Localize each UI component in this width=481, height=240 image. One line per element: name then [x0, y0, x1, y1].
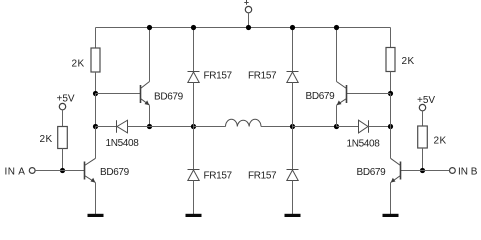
ground (Q4 emitter): [383, 214, 399, 217]
wire: rail to R1 top: [95, 28, 97, 49]
wire: D6 cathode to right mid node: [369, 126, 391, 128]
svg-text:FR157: FR157: [248, 71, 277, 82]
input terminal IN A circle: [29, 168, 35, 174]
wire: left mid node down to Q3 collector: [95, 127, 97, 159]
ground (left diode column): [186, 214, 202, 217]
wire: rail to R2 top: [390, 28, 392, 48]
svg-text:BD679: BD679: [154, 91, 184, 102]
resistor R3 2K body (left bias): [58, 127, 68, 149]
wire: Q2 base node down to right mid node: [390, 94, 392, 127]
supply terminal V+ circle: [245, 6, 251, 12]
wire: D1 anode down to mid wire: [193, 83, 195, 127]
wire: R2 bottom to Q2 base node: [390, 72, 392, 94]
svg-text:2K: 2K: [72, 59, 85, 70]
wire: Q2 emitter down to mid wire: [336, 105, 338, 126]
wire: Q1 emitter node to left diode column: [150, 126, 194, 128]
svg-text:BD679: BD679: [306, 91, 336, 102]
wire: R4 bottom to Q4 base node: [422, 148, 424, 171]
wire: left diode column rail to D1: [193, 28, 195, 72]
junction dot: right diode column on rail: [290, 25, 295, 30]
wire: IN A to Q3 base: [35, 170, 84, 172]
wire: Q1 base: [96, 93, 141, 95]
wire: Q4 base to IN B: [401, 170, 450, 172]
wire: Q1 base node down to mid node: [95, 94, 97, 127]
inductor L1 (3 loops): [226, 119, 262, 126]
wire: +5V left to R3: [62, 110, 64, 127]
wire: Q2 collector to rail: [336, 28, 338, 82]
+5V terminal (left) circle: [59, 103, 65, 109]
ground (right diode column): [285, 214, 301, 217]
junction dot: Q2 emitter on mid wire: [334, 124, 339, 129]
wire: R3 bottom to Q3 base node: [62, 149, 64, 171]
svg-text:FR157: FR157: [248, 171, 277, 182]
junction dot: left mid node: [93, 124, 98, 129]
+5V terminal (right) circle: [419, 104, 425, 110]
svg-text:+5V: +5V: [57, 94, 75, 105]
svg-text:2K: 2K: [402, 56, 415, 67]
wire: top supply rail: [96, 27, 391, 29]
junction dot: Q1 base node: [93, 91, 98, 96]
junction dot: Q2 base node: [388, 91, 393, 96]
diode D4 FR157 (bottom right, cathode up): [287, 170, 299, 181]
wire: D4 anode to ground: [292, 181, 294, 215]
wire: R1 bottom to Q1 base node: [95, 72, 97, 94]
wire: right mid node down to Q4 collector: [390, 127, 392, 159]
wire: Q2 base: [347, 93, 391, 95]
junction dot: Q1 collector on rail: [147, 25, 152, 30]
diode D3 FR157 (bottom left, cathode up): [188, 170, 200, 181]
junction dot: right mid node: [388, 124, 393, 129]
svg-text:BD679: BD679: [100, 167, 130, 178]
resistor R1 2K body (top left): [91, 48, 100, 72]
wire: left diode column to inductor: [194, 126, 226, 128]
wire: Q1 emitter down to mid wire: [149, 105, 151, 126]
junction dot: Q2 collector on rail: [334, 25, 339, 30]
wire: D5 anode to Q1 emitter node: [128, 126, 150, 128]
svg-text:1N5408: 1N5408: [106, 138, 140, 149]
wire: mid rail left node to D5 cathode: [96, 126, 117, 128]
diode D1 FR157 (top left, cathode up): [188, 72, 200, 83]
svg-text:1N5408: 1N5408: [347, 139, 381, 150]
junction dot: mid wire / right diode column: [290, 124, 295, 129]
svg-text:IN B: IN B: [458, 167, 478, 178]
wire: Q2 emitter node to D6: [337, 126, 359, 128]
resistor R2 2K body (top right): [386, 48, 395, 72]
junction dot: mid wire / left diode column: [191, 124, 196, 129]
junction dot: V+ on rail: [246, 25, 251, 30]
input terminal IN B circle: [450, 168, 456, 174]
diode D6 1N5408 (right, cathode right): [359, 120, 369, 133]
svg-text:FR157: FR157: [204, 71, 233, 82]
wire: V+ terminal to rail: [248, 13, 250, 28]
wire: D2 anode down to mid wire: [292, 83, 294, 127]
wire: +5V right to R4: [422, 111, 424, 126]
wire: Q1 collector to rail: [149, 28, 151, 82]
junction dot: Q3 base node: [60, 168, 65, 173]
diode D2 FR157 (top right, cathode up): [287, 72, 299, 83]
svg-text:+5V: +5V: [417, 95, 435, 106]
wire: mid wire down to D4: [292, 127, 294, 170]
junction dot: Q4 base node: [420, 168, 425, 173]
transistor Q4 BD679 (lower right, NPN mirrored): [391, 158, 401, 182]
transistor Q1 BD679 (upper left, NPN): [141, 82, 150, 106]
junction dot: Q1 emitter on mid wire: [147, 124, 152, 129]
ground (Q3 emitter): [88, 214, 104, 217]
resistor R4 2K body (right bias): [418, 126, 428, 148]
svg-text:IN A: IN A: [5, 167, 26, 178]
wire: right diode column to Q2 emitter node: [293, 126, 337, 128]
wire: Q4 emitter to ground: [390, 183, 392, 214]
supply label +: [244, 0, 248, 5]
svg-text:2K: 2K: [434, 136, 447, 147]
diode D5 1N5408 (left, cathode left): [117, 120, 128, 133]
wire: Q3 emitter to ground: [95, 183, 97, 214]
svg-text:FR157: FR157: [204, 171, 233, 182]
wire: D3 anode to ground: [193, 181, 195, 215]
svg-text:BD679: BD679: [357, 167, 387, 178]
junction dot: left diode column on rail: [191, 25, 196, 30]
wire: mid wire down to D3: [193, 127, 195, 170]
svg-text:2K: 2K: [40, 134, 53, 145]
wire: right diode column rail to D2: [292, 28, 294, 72]
transistor Q2 BD679 (upper right, NPN mirrored): [337, 82, 347, 106]
transistor Q3 BD679 (lower left, NPN): [85, 158, 96, 182]
wire: inductor to right diode column: [261, 126, 293, 128]
